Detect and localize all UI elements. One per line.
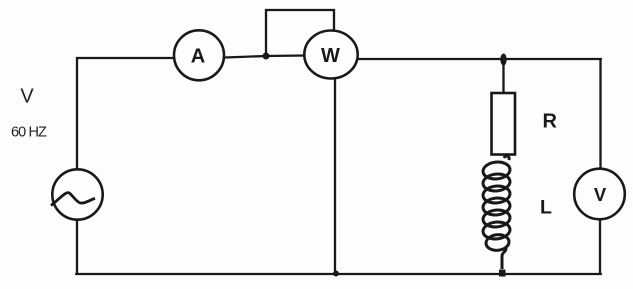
wattmeter W [304, 31, 357, 79]
wire: top-left corner (left vertical upper + top horizontal to ammeter) [77, 58, 174, 170]
svg-text:L: L [540, 197, 552, 219]
voltmeter V [574, 169, 625, 220]
wire: wattmeter to right node [358, 58, 601, 60]
wire: wattmeter voltage-coil loop [266, 10, 334, 53]
junction node d (bottom rail under W) [333, 271, 339, 277]
svg-text:W: W [321, 45, 340, 67]
wire: right vertical lower (voltmeter to bottom) [599, 220, 601, 274]
wire: bottom rail [76, 273, 601, 275]
wire: right vertical upper (to voltmeter) [599, 59, 601, 169]
svg-text:V: V [594, 184, 607, 205]
wire: left vertical lower (source to bottom wire) [76, 220, 78, 274]
inductor L (coil) [482, 156, 511, 269]
svg-text:A: A [191, 45, 205, 67]
junction node b (top of RL branch) [500, 54, 506, 66]
resistor R (rectangle) [492, 93, 516, 155]
junction node c (bottom of RL branch) [499, 270, 506, 277]
svg-text:60 HZ: 60 HZ [11, 124, 47, 140]
wire: ammeter to wattmeter [225, 56, 305, 58]
AC source V (60 Hz) [51, 169, 103, 219]
svg-text:V: V [20, 86, 34, 108]
wire: wattmeter bottom lead [334, 79, 336, 273]
ammeter A [174, 30, 224, 80]
wire: node b down to resistor [502, 65, 504, 93]
junction node a (between A and W) [263, 53, 270, 60]
svg-text:R: R [542, 110, 557, 132]
